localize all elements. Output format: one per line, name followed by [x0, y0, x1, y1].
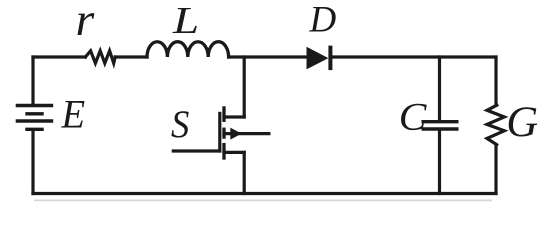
- wire r-to-L: [115, 55, 147, 58]
- svg-text:S: S: [171, 103, 189, 146]
- svg-text:L: L: [172, 0, 199, 42]
- transistor S gate plate: [218, 113, 221, 151]
- resistor r: [85, 51, 115, 63]
- transistor S channel segments: [222, 108, 225, 158]
- transistor S body lead: [224, 132, 269, 135]
- wire shadow artifact: [34, 199, 492, 201]
- transistor S source stub: [224, 151, 244, 154]
- svg-text:C: C: [399, 95, 428, 139]
- wire left vertical bottom: [31, 131, 34, 194]
- wire drain vertical: [243, 57, 246, 117]
- wire capacitor branch top: [438, 57, 441, 120]
- transistor S drain stub: [224, 115, 244, 118]
- wire diode-to-right: [332, 55, 496, 58]
- wire left vertical top: [31, 57, 34, 104]
- diode D triangle: [307, 47, 329, 70]
- wire bottom rail: [33, 192, 496, 195]
- transistor S body arrow: [230, 128, 241, 140]
- wire source vertical: [243, 152, 246, 193]
- svg-text:G: G: [506, 99, 538, 146]
- battery E plates: [17, 106, 51, 130]
- wire top-left segment: [33, 55, 85, 58]
- wire right vertical bottom: [494, 145, 497, 194]
- wire right vertical top: [494, 57, 497, 105]
- inductor L: [147, 42, 229, 57]
- resistor G: [487, 105, 504, 145]
- svg-text:D: D: [308, 0, 336, 39]
- diode D cathode bar: [328, 46, 332, 71]
- transistor S gate lead: [173, 149, 220, 152]
- wire L-to-diode: [229, 55, 307, 58]
- svg-text:E: E: [61, 92, 86, 137]
- capacitor C plates: [423, 122, 457, 129]
- svg-text:r: r: [76, 0, 95, 46]
- wire capacitor branch bottom: [438, 131, 441, 194]
